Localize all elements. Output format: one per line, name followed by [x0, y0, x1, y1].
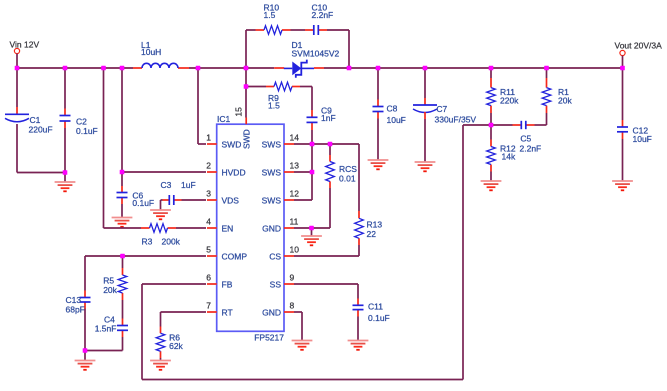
junction [63, 170, 68, 175]
resistor R3 [141, 224, 181, 247]
wire [348, 30, 350, 68]
wire [462, 125, 464, 380]
wire [311, 87, 313, 111]
svg-text:CS: CS [269, 252, 281, 262]
ground [481, 181, 502, 190]
svg-text:10uF: 10uF [387, 115, 406, 125]
junction [489, 123, 494, 128]
svg-text:14: 14 [290, 133, 300, 143]
wire [535, 124, 547, 126]
wire [294, 312, 302, 341]
svg-text:15: 15 [234, 107, 244, 117]
svg-text:1nF: 1nF [321, 113, 336, 123]
junction [347, 66, 352, 71]
svg-text:4: 4 [206, 217, 211, 227]
svg-text:0.01: 0.01 [339, 173, 356, 183]
svg-text:C5: C5 [520, 134, 531, 144]
wire [294, 143, 359, 145]
svg-text:Vin 12V: Vin 12V [10, 40, 40, 50]
wire [64, 173, 66, 183]
pin 15 SWD [234, 107, 252, 149]
wire [329, 188, 331, 228]
wire [85, 255, 206, 257]
svg-text:C11: C11 [368, 302, 383, 312]
ground [112, 218, 133, 227]
wire [64, 128, 66, 173]
svg-text:14k: 14k [502, 152, 516, 162]
ground [150, 361, 171, 370]
wire [424, 119, 426, 162]
svg-text:1.5nF: 1.5nF [95, 323, 117, 333]
svg-text:HVDD: HVDD [222, 168, 246, 178]
svg-text:Vout 20V/3A: Vout 20V/3A [615, 40, 663, 50]
wire [122, 337, 124, 351]
junction [101, 66, 106, 71]
svg-text:SWD: SWD [242, 129, 252, 149]
capacitor C13 [66, 291, 91, 315]
svg-text:C1: C1 [30, 115, 41, 125]
svg-text:2.2nF: 2.2nF [520, 144, 542, 154]
junction [196, 66, 201, 71]
svg-text:1.5: 1.5 [264, 10, 276, 20]
svg-text:10uF: 10uF [633, 134, 652, 144]
wire [141, 284, 143, 380]
resistor R5 [103, 256, 127, 300]
svg-text:SWS: SWS [262, 168, 282, 178]
junction [244, 66, 249, 71]
capacitor C2 [60, 68, 98, 136]
resistor R1 [542, 68, 572, 113]
svg-text:C3: C3 [161, 180, 172, 190]
svg-text:200k: 200k [162, 237, 181, 247]
svg-text:13: 13 [290, 161, 300, 171]
resistor R13 [355, 144, 383, 245]
svg-text:VDS: VDS [222, 196, 240, 206]
svg-text:220uF: 220uF [29, 125, 53, 135]
svg-text:SWS: SWS [262, 140, 282, 150]
wire [160, 200, 162, 210]
svg-text:SVM1045V2: SVM1045V2 [292, 49, 340, 59]
svg-text:3: 3 [206, 189, 211, 199]
capacitor C1 [5, 68, 53, 173]
wire [85, 350, 123, 352]
wire [311, 228, 313, 236]
label Vout 20V/3A [615, 40, 663, 50]
pin 2 HVDD [206, 161, 245, 178]
wire [84, 309, 86, 351]
wire [357, 284, 359, 299]
wire [160, 312, 162, 327]
ground [348, 341, 369, 350]
svg-text:EN: EN [222, 224, 234, 234]
svg-text:20k: 20k [103, 285, 117, 295]
svg-text:GND: GND [262, 224, 281, 234]
svg-text:SWD: SWD [222, 140, 242, 150]
wire [294, 199, 312, 201]
svg-text:C8: C8 [387, 104, 398, 114]
svg-text:12: 12 [290, 189, 300, 199]
capacitor C3 [161, 180, 196, 205]
junction [120, 254, 125, 259]
wire [84, 256, 86, 291]
label Vin 12V [10, 40, 40, 50]
svg-text:IC1: IC1 [217, 114, 231, 124]
pin 1 SWD [206, 133, 241, 150]
resistor R6 [156, 327, 183, 359]
wire [490, 172, 492, 182]
wire [160, 358, 162, 361]
wire [491, 124, 513, 126]
junction [120, 66, 125, 71]
svg-text:FB: FB [222, 280, 233, 290]
capacitor C6 [117, 172, 155, 218]
pin 3 VDS [206, 189, 239, 206]
ground [150, 210, 171, 219]
pin 11 GND [262, 217, 298, 234]
wire [245, 68, 247, 87]
wire [357, 317, 359, 341]
wire [294, 283, 358, 285]
pin 9 SS [270, 273, 295, 290]
svg-text:0.1uF: 0.1uF [76, 126, 98, 136]
resistor R11 [487, 68, 519, 113]
svg-text:0.1uF: 0.1uF [368, 313, 390, 323]
wire [294, 245, 359, 256]
pin 12 SWS [262, 189, 300, 206]
junction [15, 66, 20, 71]
svg-text:SS: SS [270, 280, 282, 290]
wire [17, 67, 133, 69]
resistor RCS [326, 144, 358, 188]
svg-text:7: 7 [206, 301, 211, 311]
junction [120, 170, 125, 175]
wire [84, 351, 86, 361]
wire [245, 87, 247, 118]
ground [55, 182, 76, 191]
wire [182, 199, 207, 201]
wire [622, 139, 624, 181]
svg-text:C7: C7 [436, 104, 447, 114]
junction [309, 226, 314, 231]
wire [104, 68, 142, 228]
svg-text:5: 5 [206, 245, 211, 255]
port Vout [620, 50, 625, 55]
wire [198, 68, 206, 144]
wire [189, 67, 274, 69]
capacitor C9 [307, 106, 336, 131]
wire [294, 171, 312, 173]
wire [16, 54, 18, 68]
resistor R10 [256, 2, 291, 34]
svg-text:9: 9 [290, 273, 295, 283]
junction [328, 142, 333, 147]
wire [142, 379, 463, 381]
svg-text:68pF: 68pF [66, 305, 85, 315]
svg-text:FP5217: FP5217 [254, 332, 284, 342]
diode D1 [274, 40, 339, 78]
wire [311, 144, 313, 200]
svg-text:RT: RT [222, 308, 233, 318]
svg-text:1uF: 1uF [181, 180, 196, 190]
svg-text:R3: R3 [142, 237, 153, 247]
pin 5 COMP [206, 245, 247, 262]
svg-text:220k: 220k [500, 96, 519, 106]
svg-text:1: 1 [206, 133, 211, 143]
wire [622, 56, 624, 68]
svg-text:R13: R13 [367, 220, 383, 230]
junction [489, 66, 494, 71]
wire [300, 86, 312, 88]
resistor R12 [487, 125, 516, 172]
ground [292, 341, 313, 350]
wire [377, 119, 379, 161]
inductor L1 [133, 40, 189, 68]
ground [301, 236, 322, 245]
pin 4 EN [206, 217, 233, 234]
svg-text:C2: C2 [76, 117, 87, 127]
wire [176, 227, 206, 229]
svg-text:0.1uF: 0.1uF [132, 198, 154, 208]
ground [415, 162, 436, 171]
resistor R9 [266, 82, 300, 110]
svg-text:330uF/35V: 330uF/35V [435, 115, 477, 125]
svg-text:62k: 62k [169, 341, 183, 351]
pin 10 CS [269, 245, 299, 262]
wire [294, 227, 330, 229]
ground [612, 181, 633, 190]
capacitor C8 [373, 68, 406, 125]
junction [376, 66, 381, 71]
svg-text:8: 8 [290, 301, 295, 311]
port Vin [14, 48, 19, 53]
svg-text:20k: 20k [558, 96, 572, 106]
svg-text:1.5: 1.5 [268, 101, 280, 111]
pin 13 SWS [262, 161, 300, 178]
junction [423, 66, 428, 71]
pin 8 GND [262, 301, 294, 318]
junction [310, 142, 315, 147]
junction [620, 66, 625, 71]
capacitor C11 [353, 299, 390, 324]
junction [244, 84, 249, 89]
capacitor C10 [305, 2, 333, 35]
wire [17, 172, 65, 174]
svg-text:6: 6 [206, 273, 211, 283]
junction [310, 170, 315, 175]
ground [368, 160, 389, 169]
capacitor C4 [95, 314, 128, 337]
wire [490, 113, 492, 125]
svg-text:11: 11 [290, 217, 299, 227]
wire [121, 68, 123, 172]
pin 7 RT [206, 301, 232, 318]
wire [463, 124, 491, 126]
svg-text:22: 22 [367, 229, 377, 239]
wire [122, 300, 124, 319]
wire [246, 29, 256, 31]
wire [122, 171, 206, 173]
svg-text:10uH: 10uH [141, 47, 161, 57]
capacitor C5 [513, 121, 542, 154]
wire [327, 29, 349, 31]
svg-text:R5: R5 [103, 275, 114, 285]
pin 6 FB [206, 273, 232, 290]
svg-text:10: 10 [290, 245, 300, 255]
svg-text:2: 2 [206, 161, 211, 171]
wire [246, 86, 266, 88]
wire [245, 30, 247, 68]
wire [291, 29, 306, 31]
junction [63, 66, 68, 71]
wire [161, 311, 207, 313]
wire [324, 67, 623, 69]
junction [544, 66, 549, 71]
IC IC1 FP5217 [217, 114, 285, 342]
capacitor C7 [413, 68, 476, 125]
wire [311, 130, 313, 144]
junction [83, 348, 88, 353]
wire [546, 113, 548, 125]
svg-text:2.2nF: 2.2nF [312, 10, 334, 20]
svg-text:COMP: COMP [222, 252, 248, 262]
pin 14 SWS [262, 133, 300, 150]
svg-text:SWS: SWS [262, 196, 282, 206]
ground [75, 361, 96, 370]
wire [142, 283, 206, 285]
capacitor C12 [617, 68, 652, 144]
svg-text:GND: GND [262, 308, 281, 318]
